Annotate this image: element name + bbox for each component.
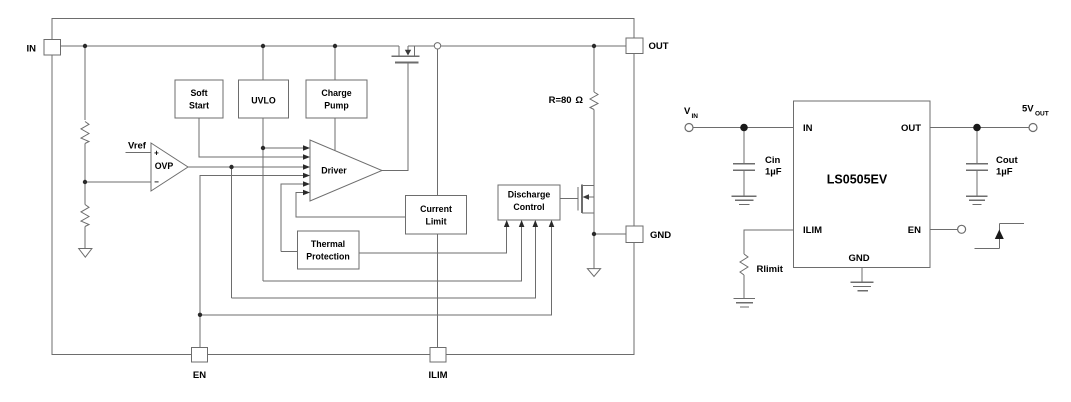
op-amp OVP	[151, 143, 188, 191]
arrowhead driver input 4	[303, 173, 310, 179]
wire: to OVP inverting input	[85, 181, 151, 183]
wire: R80 to drain	[593, 110, 595, 186]
wire: Vref input	[126, 152, 152, 154]
wire: long route to discharge arrow 4	[200, 226, 552, 315]
svg-text:Thermal: Thermal	[311, 239, 345, 249]
wire: VIN to IC	[693, 127, 794, 129]
ground divider	[79, 249, 92, 258]
svg-text:1µF: 1µF	[765, 167, 782, 178]
arrowhead driver input 3	[303, 164, 310, 170]
svg-text:R=80 Ω: R=80 Ω	[549, 95, 584, 106]
svg-text:Limit: Limit	[425, 217, 446, 227]
svg-text:OVP: OVP	[155, 161, 174, 171]
wire: OVP branch down	[231, 167, 233, 298]
svg-text:Driver: Driver	[321, 166, 347, 176]
resistor Rlimit	[740, 254, 748, 275]
ground Rlimit	[733, 299, 755, 307]
wire: EN to terminal	[930, 228, 958, 230]
arrowhead discharge 3	[533, 220, 539, 227]
terminal VIN	[685, 124, 693, 132]
svg-text:EN: EN	[908, 225, 921, 236]
arrowhead driver input 5	[303, 181, 310, 187]
svg-text:Current: Current	[420, 204, 452, 214]
svg-text:Cin: Cin	[765, 155, 781, 166]
svg-text:IN: IN	[692, 113, 699, 120]
wire: thermal riser to driver input 5	[281, 184, 304, 252]
wire: Rlimit to ground	[743, 275, 745, 299]
junction dot rail-UVLO	[261, 44, 265, 48]
block Current Limit	[406, 196, 467, 234]
wire: divider top	[84, 46, 86, 120]
svg-text:GND: GND	[650, 230, 671, 241]
svg-text:Start: Start	[189, 101, 209, 111]
wire: OVP output	[188, 166, 304, 168]
wire: UVLO output down	[262, 118, 264, 281]
block Discharge Control	[498, 185, 560, 220]
svg-text:OUT: OUT	[1035, 111, 1049, 118]
svg-text:Vref: Vref	[128, 141, 147, 152]
svg-text:Cout: Cout	[996, 155, 1018, 166]
wire: IN rail left segment	[61, 45, 400, 47]
wire: divider middle	[84, 144, 86, 205]
svg-text:ILIM: ILIM	[429, 370, 448, 381]
arrowhead discharge 4	[549, 220, 555, 227]
svg-text:IN: IN	[27, 44, 37, 55]
svg-text:Pump: Pump	[324, 101, 349, 111]
svg-text:+: +	[154, 149, 159, 158]
transistor discharge FET Q2	[578, 184, 594, 213]
junction dot source-GND	[592, 232, 596, 236]
svg-text:UVLO: UVLO	[251, 96, 276, 106]
svg-text:Protection: Protection	[306, 252, 350, 262]
switch edge trigger symbol	[975, 223, 1025, 248]
junction dot Cin	[740, 124, 748, 132]
junction dot rail-R80	[592, 44, 596, 48]
IC LS0505EV	[794, 101, 931, 268]
wire: driver output to gate	[382, 63, 408, 171]
block Charge Pump	[306, 80, 367, 118]
pin EN	[192, 348, 208, 363]
wire: to GND pin	[594, 233, 626, 235]
svg-text:Rlimit: Rlimit	[757, 264, 784, 275]
arrowhead discharge 1	[504, 220, 510, 227]
wire: R80 branch top	[593, 46, 595, 92]
svg-text:IN: IN	[803, 123, 813, 134]
arrowhead driver input 2	[303, 154, 310, 160]
wire: long route to discharge arrow 2	[263, 226, 522, 281]
junction dot UVLO branch	[261, 146, 265, 150]
svg-text:5V: 5V	[1022, 104, 1034, 115]
pin GND	[626, 226, 643, 243]
capacitor Cout	[966, 128, 988, 197]
block Soft Start	[175, 80, 223, 118]
wire: charge pump to driver top	[334, 118, 336, 151]
capacitor Cin	[733, 128, 755, 197]
svg-text:V: V	[684, 106, 691, 117]
ground Cin	[731, 196, 756, 204]
wire: long route to discharge arrow 3	[232, 226, 536, 298]
terminal EN	[958, 225, 966, 233]
arrowhead discharge 2	[519, 220, 525, 227]
resistor divider upper	[81, 122, 89, 144]
block Thermal Protection	[298, 231, 360, 269]
svg-text:1µF: 1µF	[996, 167, 1013, 178]
wire: charge pump top connection	[334, 46, 336, 80]
transistor pass FET Q1	[392, 46, 420, 63]
svg-text:Soft: Soft	[190, 88, 207, 98]
wire: divider bottom	[84, 227, 86, 249]
svg-text:Discharge: Discharge	[508, 190, 551, 200]
svg-text:LS0505EV: LS0505EV	[827, 173, 888, 187]
svg-text:ILIM: ILIM	[803, 225, 822, 236]
junction dot OVP branch	[229, 165, 233, 169]
wire: UVLO to driver input 1	[263, 147, 304, 149]
block UVLO	[239, 80, 289, 118]
junction dot rail-charge-pump	[333, 44, 337, 48]
ground discharge	[587, 269, 600, 277]
arrowhead edge trigger	[995, 230, 1004, 240]
arrowhead driver input 1	[303, 145, 310, 151]
wire: IN rail right segment	[441, 45, 626, 47]
wire: thermal protection out to discharge arrow 1	[359, 226, 507, 253]
svg-text:OUT: OUT	[649, 41, 669, 52]
ground IC	[851, 282, 874, 291]
svg-text:Control: Control	[513, 202, 544, 212]
svg-text:GND: GND	[848, 253, 869, 264]
junction dot divider mid	[83, 180, 87, 184]
wire: gate of discharge FET	[560, 198, 578, 200]
outer boundary box	[52, 19, 634, 355]
junction dot rail-divider	[83, 44, 87, 48]
wire: ILIM vertical	[437, 49, 439, 348]
resistor divider lower	[81, 205, 89, 227]
driver amplifier U1	[310, 140, 382, 201]
wire: OUT to terminal	[930, 127, 1029, 129]
wire: UVLO top connection	[262, 46, 264, 80]
svg-text:EN: EN	[193, 370, 206, 381]
arrowhead driver input 6	[303, 190, 310, 196]
node circle on rail	[434, 43, 440, 49]
wire: IC GND to ground	[861, 268, 863, 283]
wire: into thermal protection	[281, 251, 298, 253]
wire: ILIM to Rlimit	[744, 230, 794, 254]
pin OUT	[626, 38, 643, 54]
terminal 5VOUT	[1029, 124, 1037, 132]
wire: EN riser to driver input 4	[200, 176, 304, 348]
pin ILIM	[430, 348, 446, 363]
svg-text:OUT: OUT	[901, 123, 921, 134]
junction dot EN branch	[198, 313, 202, 317]
pin IN	[44, 40, 61, 56]
wire: source down to ground	[593, 197, 595, 269]
svg-text:−: −	[154, 178, 159, 187]
svg-text:Charge: Charge	[321, 88, 351, 98]
junction dot Cout	[973, 124, 981, 132]
wire: soft start output to driver input 2	[199, 118, 304, 157]
wire: current limit loop to driver input 6	[296, 193, 406, 218]
wire: IN rail mid segment	[408, 45, 434, 47]
ground Cout	[966, 196, 988, 204]
resistor R=80	[590, 92, 598, 110]
